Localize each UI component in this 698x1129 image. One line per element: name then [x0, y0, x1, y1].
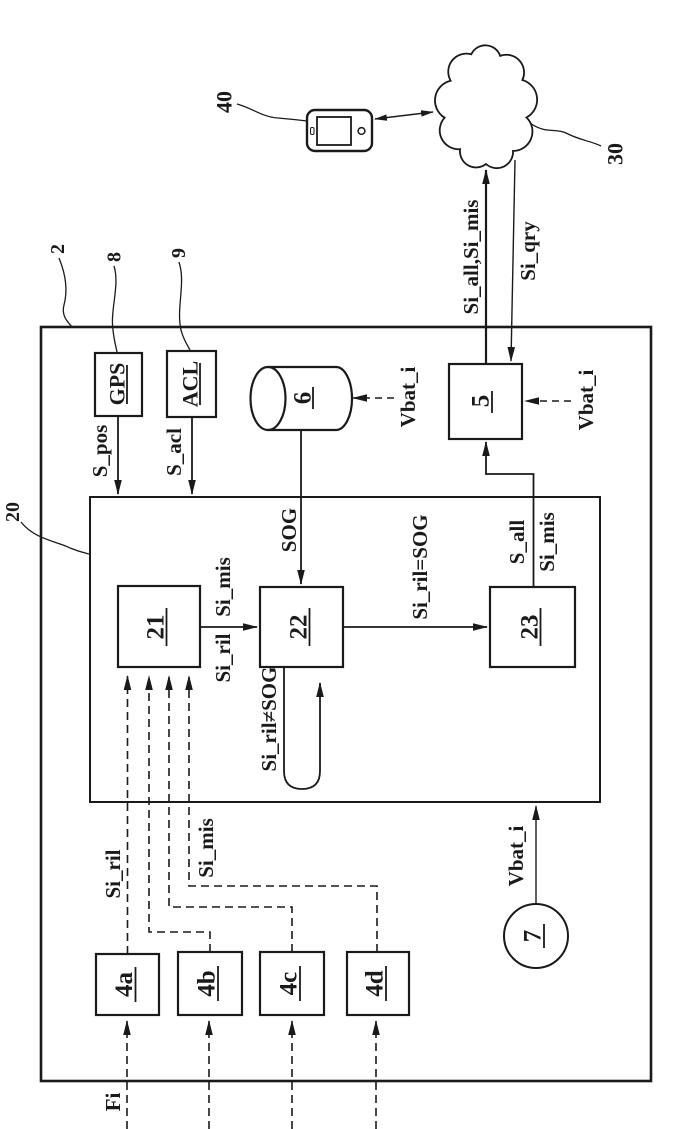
- wire 22 to 23 Si_ril=SOG: [343, 626, 487, 628]
- wire 23 to 5 S_all/Si_mis: [486, 442, 534, 587]
- box 23: [490, 587, 575, 667]
- box 4a: [96, 954, 159, 1015]
- label 30: [603, 143, 628, 165]
- feedback loop Si_ril&#8800;SOG on box 22: [284, 667, 320, 789]
- wire S_acl ACL to box 20: [191, 417, 193, 494]
- label 20: [2, 502, 24, 522]
- svg-text:30: 30: [603, 143, 628, 165]
- box 4c: [260, 952, 324, 1015]
- svg-text:SOG: SOG: [277, 508, 301, 552]
- svg-text:8: 8: [104, 252, 126, 262]
- wire Vbat_i from 7 to box 20: [535, 806, 537, 904]
- label 8: [104, 252, 126, 262]
- dashed input to 4d: [375, 1021, 377, 1129]
- svg-text:S_all: S_all: [505, 520, 529, 565]
- wire S_pos GPS to box 20: [117, 416, 119, 494]
- svg-text:Vbat_i: Vbat_i: [574, 370, 598, 431]
- svg-text:23: 23: [517, 615, 544, 640]
- svg-text:21: 21: [143, 615, 170, 640]
- svg-text:5: 5: [468, 395, 495, 408]
- cloud 30: [435, 45, 537, 168]
- svg-text:Si_mis: Si_mis: [211, 557, 235, 617]
- label 40: [212, 91, 237, 113]
- cylinder 6: [268, 367, 352, 430]
- svg-text:2: 2: [47, 244, 69, 254]
- wire Vbat_i to cylinder 6: [353, 397, 394, 399]
- dashed input Fi to 4a: [126, 1021, 128, 1129]
- svg-text:22: 22: [286, 615, 313, 640]
- svg-text:7: 7: [520, 930, 547, 943]
- smartphone 40: [307, 110, 372, 151]
- svg-text:ACL: ACL: [178, 361, 203, 407]
- circle 7 battery: [504, 904, 568, 968]
- leader for 30: [530, 123, 601, 146]
- wire 21 to 22 Si_ril/Si_mis: [200, 626, 257, 628]
- svg-text:Si_ril: Si_ril: [101, 849, 125, 898]
- inner frame box 20: [90, 497, 600, 802]
- svg-text:GPS: GPS: [105, 363, 130, 406]
- dashed wire 4d to 21 Si_mis: [189, 676, 377, 952]
- svg-text:Vbat_i: Vbat_i: [396, 367, 420, 428]
- svg-text:S_pos: S_pos: [88, 425, 112, 478]
- label 2: [47, 244, 69, 254]
- svg-text:Fi: Fi: [101, 1093, 125, 1112]
- wire Vbat_i to box 5: [525, 400, 571, 402]
- leader for 8: [112, 266, 117, 352]
- svg-text:4c: 4c: [276, 972, 303, 996]
- svg-text:20: 20: [2, 502, 24, 522]
- svg-text:4a: 4a: [111, 972, 138, 998]
- label 9: [168, 248, 190, 258]
- dashed wire 4c to 21: [169, 676, 292, 952]
- leader for 2: [59, 258, 72, 327]
- dashed wire 4b to 21: [149, 676, 210, 952]
- wire SOG cylinder to box 22: [300, 430, 302, 584]
- box 5: [449, 364, 522, 439]
- wire cloud to 5 Si_qry: [511, 160, 515, 361]
- leader for 20: [21, 522, 89, 554]
- GPS box 8: [95, 353, 142, 416]
- leader for 40: [237, 104, 307, 121]
- leader for 9: [179, 262, 190, 350]
- svg-text:Si_mis: Si_mis: [194, 818, 218, 878]
- svg-text:9: 9: [168, 248, 190, 258]
- svg-text:Vbat_i: Vbat_i: [504, 826, 528, 887]
- outer frame box 2: [41, 327, 651, 1081]
- svg-text:40: 40: [212, 91, 237, 113]
- dashed wire 4a to 21 Si_ril: [127, 676, 129, 954]
- svg-text:Si_ril=SOG: Si_ril=SOG: [408, 514, 432, 619]
- ACL box 9: [167, 351, 216, 417]
- svg-text:Si_all,Si_mis: Si_all,Si_mis: [459, 200, 483, 315]
- svg-text:Si_qry: Si_qry: [516, 221, 540, 281]
- svg-text:4d: 4d: [362, 970, 389, 997]
- svg-text:S_acl: S_acl: [162, 428, 186, 476]
- box 21: [118, 586, 200, 667]
- wire 5 to cloud Si_all,Si_mis: [485, 170, 487, 364]
- dashed input to 4b: [208, 1021, 210, 1129]
- svg-text:Si_mis: Si_mis: [535, 512, 559, 572]
- svg-text:Si_ril≠SOG: Si_ril≠SOG: [257, 667, 281, 772]
- svg-text:4b: 4b: [194, 970, 221, 996]
- svg-text:Si_ril: Si_ril: [211, 633, 235, 682]
- box 22: [260, 587, 343, 667]
- box 4b: [178, 952, 242, 1015]
- dashed input to 4c: [291, 1021, 293, 1129]
- box 4d: [347, 952, 409, 1015]
- wire phone to cloud: [375, 112, 433, 119]
